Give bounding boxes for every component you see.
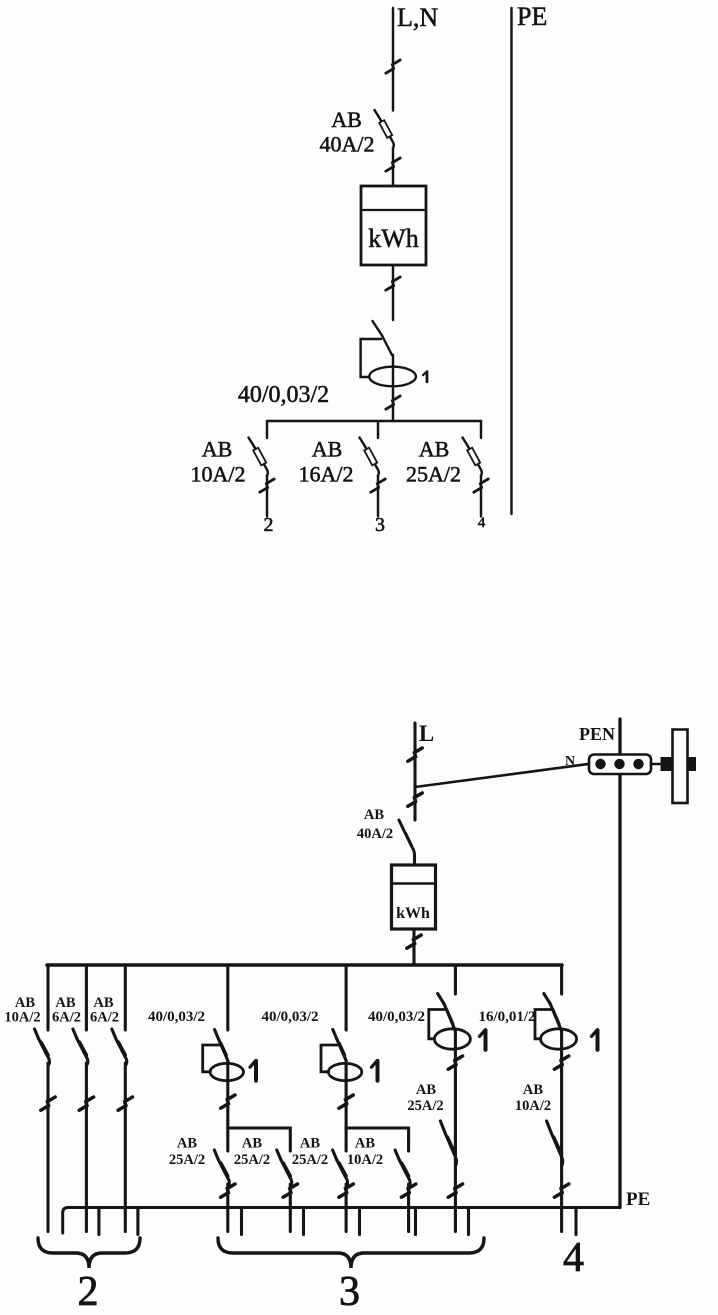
- svg-text:25A/2: 25A/2: [407, 1098, 443, 1114]
- svg-text:40A/2: 40A/2: [320, 132, 375, 157]
- svg-text:AB: AB: [177, 1136, 197, 1152]
- svg-text:10A/2: 10A/2: [191, 462, 246, 487]
- svg-text:AB: AB: [419, 437, 450, 462]
- svg-text:25A/2: 25A/2: [406, 462, 461, 487]
- svg-text:PE: PE: [626, 1189, 650, 1210]
- svg-text:10A/2: 10A/2: [515, 1098, 551, 1114]
- svg-text:AB: AB: [364, 807, 384, 823]
- svg-text:40/0,03/2: 40/0,03/2: [261, 1009, 318, 1025]
- svg-text:40/0,03/2: 40/0,03/2: [238, 382, 329, 408]
- svg-text:L: L: [419, 721, 434, 746]
- svg-text:PEN: PEN: [579, 724, 615, 744]
- svg-text:L,N: L,N: [397, 3, 438, 32]
- svg-text:AB: AB: [242, 1136, 262, 1152]
- svg-text:3: 3: [375, 514, 385, 536]
- svg-text:kWh: kWh: [396, 905, 430, 922]
- svg-text:AB: AB: [523, 1082, 543, 1098]
- svg-text:kWh: kWh: [368, 224, 419, 253]
- svg-text:40A/2: 40A/2: [357, 826, 393, 842]
- svg-text:25A/2: 25A/2: [169, 1152, 205, 1168]
- svg-text:PE: PE: [517, 2, 547, 31]
- svg-text:AB: AB: [300, 1136, 320, 1152]
- svg-text:10A/2: 10A/2: [4, 1010, 40, 1026]
- svg-text:40/0,03/2: 40/0,03/2: [148, 1009, 205, 1025]
- svg-text:6A/2: 6A/2: [52, 1010, 81, 1026]
- svg-text:AB: AB: [355, 1136, 375, 1152]
- svg-text:2: 2: [78, 1269, 99, 1315]
- svg-text:AB: AB: [416, 1082, 436, 1098]
- svg-text:25A/2: 25A/2: [234, 1152, 270, 1168]
- svg-text:40/0,03/2: 40/0,03/2: [368, 1009, 425, 1025]
- svg-text:25A/2: 25A/2: [292, 1152, 328, 1168]
- svg-text:6A/2: 6A/2: [90, 1010, 119, 1026]
- svg-text:16/0,01/2: 16/0,01/2: [478, 1009, 535, 1025]
- svg-text:3: 3: [339, 1269, 360, 1315]
- svg-text:10A/2: 10A/2: [347, 1152, 383, 1168]
- svg-text:N: N: [565, 754, 575, 769]
- svg-text:AB: AB: [202, 437, 233, 462]
- svg-text:2: 2: [264, 514, 274, 536]
- svg-text:16A/2: 16A/2: [299, 462, 354, 487]
- svg-text:AB: AB: [312, 437, 343, 462]
- svg-text:4: 4: [563, 1235, 584, 1281]
- svg-text:AB: AB: [331, 107, 362, 132]
- svg-text:4: 4: [478, 515, 486, 531]
